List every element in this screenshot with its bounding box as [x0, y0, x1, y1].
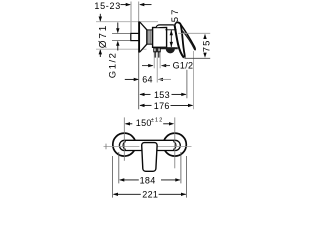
dim 153	[139, 93, 144, 96]
svg-text:221: 221	[142, 190, 158, 200]
dim G1/2 right arrows	[142, 65, 153, 67]
outlet plug	[156, 49, 159, 52]
pipe extension lines	[153, 53, 155, 69]
svg-text:15-23: 15-23	[94, 1, 121, 11]
center line tick	[105, 144, 107, 150]
handle lever blade fill	[175, 22, 185, 57]
dim O71 extension lines	[96, 21, 158, 23]
svg-text:57: 57	[170, 8, 181, 23]
dim 176 right extension line	[193, 51, 195, 109]
lower dark band and lever foot wedge	[160, 47, 178, 49]
handle cap	[156, 25, 175, 28]
handle lever peak	[175, 22, 178, 25]
vertical center line right	[174, 117, 176, 168]
dim 57 extension line	[165, 29, 176, 31]
svg-text:64: 64	[142, 75, 153, 85]
handle lever top face fill	[178, 22, 195, 49]
dim 150 arrows	[125, 122, 130, 125]
handle front	[142, 143, 157, 172]
horizontal center line	[104, 145, 140, 147]
svg-text:G1/2: G1/2	[173, 61, 194, 71]
bar right inner cap arc	[173, 142, 176, 150]
vertical center line left	[123, 117, 125, 160]
dim 184 extension lines	[118, 152, 120, 183]
escutcheon face extension line lower	[138, 53, 140, 110]
right flange circle	[163, 133, 186, 156]
union square dim arrows	[117, 23, 119, 30]
escutcheon cone	[140, 22, 147, 52]
dim 184	[119, 178, 124, 181]
svg-text:153: 153	[154, 90, 170, 100]
dim 153 right extension line	[186, 70, 188, 98]
dim 15-23 arrows	[121, 4, 130, 6]
dim 221 extension lines	[111, 156, 113, 198]
dim 75 extension lines	[178, 32, 210, 34]
union square dim extension lines	[112, 32, 130, 34]
handle lever back edge	[175, 26, 184, 58]
dim 221	[113, 193, 118, 196]
union square	[131, 33, 139, 40]
handle lever top diagonal edge	[181, 25, 195, 50]
svg-text:75: 75	[201, 39, 212, 52]
dim 57 arrows	[170, 30, 172, 47]
svg-text:176: 176	[154, 101, 170, 111]
escutcheon face extension line upper	[138, 2, 140, 22]
bar left inner cap arc	[123, 142, 126, 150]
body bar	[119, 140, 180, 150]
ribbed union	[147, 30, 152, 44]
handle lever bottom diagonal edge	[182, 30, 195, 50]
wall extension line (union face plane)	[130, 2, 132, 34]
handle lever front edge	[178, 22, 185, 57]
svg-text:150: 150	[136, 118, 152, 128]
pipe center line	[156, 52, 158, 83]
svg-text:184: 184	[140, 175, 156, 185]
left flange circle	[113, 133, 136, 156]
dim 176	[139, 104, 144, 107]
dim 75 arrows	[203, 34, 206, 39]
svg-text:±12: ±12	[151, 117, 164, 123]
dim 64 arrows	[125, 78, 138, 80]
outlet box	[154, 48, 160, 52]
svg-text:Ø71: Ø71	[98, 24, 109, 48]
svg-text:G1/2: G1/2	[107, 52, 118, 79]
dim O71 arrows	[99, 14, 101, 21]
escutcheon face	[138, 21, 140, 52]
cartridge housing	[153, 28, 167, 48]
pipe stub	[154, 52, 156, 58]
